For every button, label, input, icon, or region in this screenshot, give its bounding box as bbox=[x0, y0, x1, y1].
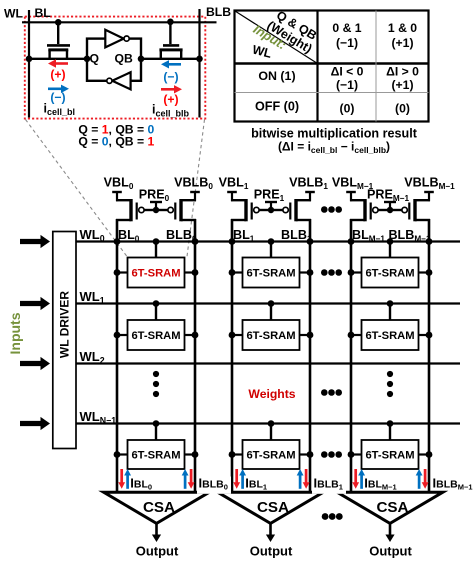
precharge PMOS right 0 (channel) bbox=[179, 199, 182, 221]
inset wire BL bbox=[28, 10, 30, 118]
svg-text:CSA: CSA bbox=[143, 499, 175, 516]
precharge PMOS right 0 (gate bar) bbox=[174, 203, 176, 220]
precharge gate wire right 1 bbox=[271, 209, 283, 211]
vertical ellipsis dots at x=156 bbox=[153, 371, 159, 377]
svg-text:VBLB0: VBLB0 bbox=[174, 176, 213, 192]
svg-text:Output: Output bbox=[369, 544, 412, 559]
junction dot WL_N−1 colM−1 bbox=[387, 420, 394, 427]
6T-SRAM cell row0 col0 (side wires+dots) bbox=[117, 271, 128, 273]
precharge gate wire right M−1 bbox=[390, 209, 402, 211]
svg-text:Output: Output bbox=[136, 544, 179, 559]
precharge PMOS left 0 (wires) bbox=[116, 199, 131, 201]
6T-SRAM cell row1 col0 (WL stub) bbox=[155, 304, 157, 321]
precharge PMOS left 1 (gate bubble) bbox=[254, 207, 259, 212]
precharge gate wire left M−1 bbox=[378, 209, 390, 211]
inset access transistor left (gate stub) bbox=[57, 22, 59, 44]
inset access transistor left (gate bar) bbox=[47, 44, 70, 47]
node PRE_0 dot bbox=[153, 207, 159, 213]
6T-SRAM cell row2 col0 (box) bbox=[128, 440, 185, 469]
6T-SRAM cell row0 col1 (box) bbox=[243, 258, 300, 288]
input arrow 0 bbox=[20, 235, 50, 248]
inset current arrow red left (+) on BL side bbox=[55, 62, 69, 65]
svg-text:0 & 1: 0 & 1 bbox=[332, 21, 361, 35]
6T-SRAM cell row2 colM−1 (box) bbox=[362, 440, 419, 469]
table row divider ON/OFF (thin) bbox=[235, 92, 429, 94]
precharge PMOS left M−1 (gate bubble) bbox=[373, 207, 378, 212]
svg-text:(+): (+) bbox=[163, 93, 178, 107]
svg-text:(+1): (+1) bbox=[391, 36, 413, 50]
VBLB_M−1 supply terminal bbox=[424, 191, 434, 193]
node PRE_1 dot bbox=[268, 207, 274, 213]
current arrow blue up IBL_0 bbox=[126, 475, 129, 489]
PRE_0 terminal stub bbox=[155, 203, 157, 210]
table column divider 1 bbox=[316, 11, 318, 122]
precharge PMOS left 0 (gate bar) bbox=[136, 203, 138, 220]
svg-text:Output: Output bbox=[250, 544, 293, 559]
label IBLB_0 white backing bbox=[197, 477, 231, 494]
inset node Q dot bbox=[84, 56, 91, 63]
label IBLB_1 white backing bbox=[312, 477, 346, 494]
precharge PMOS right M−1 (channel) bbox=[413, 199, 416, 221]
svg-text:Weights: Weights bbox=[248, 387, 295, 401]
svg-text:IBLB1: IBLB1 bbox=[314, 475, 343, 491]
CSA sense amp 0 (triangle) bbox=[104, 492, 210, 523]
svg-text:6T-SRAM: 6T-SRAM bbox=[246, 450, 295, 462]
CSA sense amp 2 (triangle) bbox=[337, 492, 443, 523]
precharge PMOS right M−1 (gate bubble) bbox=[402, 207, 407, 212]
svg-text:(+): (+) bbox=[50, 67, 65, 81]
6T-SRAM cell row1 colM−1 (box) bbox=[362, 320, 419, 350]
svg-text:6T-SRAM: 6T-SRAM bbox=[365, 330, 414, 342]
svg-text:CSA: CSA bbox=[257, 499, 289, 516]
inset access transistor right (channel) bbox=[159, 48, 182, 51]
6T-SRAM cell row2 col1 (WL stub) bbox=[270, 424, 272, 441]
inset current arrow red right (+) on BLB side bbox=[161, 88, 176, 91]
inset access transistor right (gate bar) bbox=[163, 44, 179, 47]
6T-SRAM cell row2 col0 (side wires+dots) bbox=[117, 453, 128, 455]
svg-text:VBLB1: VBLB1 bbox=[289, 176, 328, 192]
current arrow red down IBLB_M−1 bbox=[424, 469, 427, 483]
wire BLB_1 (vertical) bbox=[309, 219, 312, 492]
svg-text:(0): (0) bbox=[395, 101, 410, 115]
wire BLB_M−1 (vertical) bbox=[428, 219, 431, 492]
precharge PMOS left M−1 (gate bar) bbox=[370, 203, 372, 220]
6T-SRAM cell row1 col1 (box) bbox=[243, 320, 300, 350]
junction dot WL_1 col0 bbox=[153, 300, 160, 307]
6T-SRAM cell row2 col1 (side wires+dots) bbox=[232, 453, 243, 455]
inset junction dot BLB bbox=[196, 56, 203, 63]
inset access transistor left (legs) bbox=[48, 50, 50, 59]
svg-text:(0): (0) bbox=[340, 101, 355, 115]
6T-SRAM cell row1 colM−1 (WL stub) bbox=[389, 304, 391, 321]
svg-text:BL: BL bbox=[35, 6, 52, 20]
output arrow 0 bbox=[155, 523, 158, 536]
magnifier dashed line right bbox=[187, 120, 205, 257]
wire WL_2 bbox=[76, 362, 460, 364]
horizontal ellipsis dots SRAM row 1 bbox=[321, 269, 328, 276]
precharge PMOS left 1 (wires) bbox=[231, 199, 246, 201]
wire WL_1 bbox=[76, 302, 460, 304]
horizontal ellipsis dots CSA row bbox=[322, 513, 329, 520]
inset access transistor right (legs) bbox=[160, 50, 162, 59]
svg-text:IBLB0: IBLB0 bbox=[199, 475, 228, 491]
inset inverter bottom bubble bbox=[107, 78, 112, 83]
svg-text:6T-SRAM: 6T-SRAM bbox=[365, 450, 414, 462]
junction dot WL_N−1 col1 bbox=[268, 420, 275, 427]
precharge PMOS left 0 (gate bubble) bbox=[139, 207, 144, 212]
6T-SRAM cell row0 col1 (side wires+dots) bbox=[232, 271, 243, 273]
inset node QB dot bbox=[138, 56, 145, 63]
6T-SRAM cell row1 col0 (side wires+dots) bbox=[117, 334, 128, 336]
svg-text:WL DRIVER: WL DRIVER bbox=[58, 291, 72, 358]
PRE_M−1 terminal stub bbox=[389, 203, 391, 210]
precharge PMOS right M−1 (gate bar) bbox=[408, 203, 410, 220]
inset current arrow blue left (-) on BLB side bbox=[168, 63, 182, 66]
svg-text:6T-SRAM: 6T-SRAM bbox=[246, 268, 295, 280]
current arrow red down IBL_M−1 bbox=[354, 469, 357, 483]
6T-SRAM cell row2 colM−1 (side wires+dots) bbox=[351, 453, 362, 455]
precharge PMOS left 1 (gate bar) bbox=[251, 203, 253, 220]
current arrow red down IBL_0 bbox=[120, 469, 123, 483]
precharge gate wire right 0 bbox=[156, 209, 168, 211]
table header diagonal bbox=[235, 11, 318, 64]
inset wire QB to BLB bbox=[141, 58, 200, 60]
svg-text:1 & 0: 1 & 0 bbox=[388, 21, 417, 35]
precharge PMOS right 1 (wires) bbox=[296, 199, 311, 201]
table header bottom line bbox=[235, 62, 429, 64]
junction dot WL_0 colM−1 bbox=[387, 238, 394, 245]
wire BL_1 (vertical) bbox=[231, 219, 234, 492]
node PRE_M−1 dot bbox=[387, 207, 393, 213]
6T-SRAM cell row1 colM−1 (side wires+dots) bbox=[351, 334, 362, 336]
PRE_1 terminal stub bbox=[270, 203, 272, 210]
inset current arrow blue right (-) on BL side bbox=[48, 88, 63, 91]
svg-text:Inputs: Inputs bbox=[7, 312, 23, 354]
svg-text:6T-SRAM: 6T-SRAM bbox=[365, 268, 414, 280]
horizontal ellipsis dots weights row bbox=[321, 389, 328, 396]
precharge PMOS right 1 (gate bar) bbox=[289, 203, 291, 220]
svg-text:6T-SRAM: 6T-SRAM bbox=[246, 330, 295, 342]
inset wire WL bbox=[22, 21, 217, 23]
6T-SRAM cell row2 col0 (WL stub) bbox=[155, 424, 157, 441]
wire BL_0 (vertical) bbox=[116, 219, 119, 492]
precharge gate wire left 0 bbox=[144, 209, 156, 211]
wire WL_N−1 bbox=[76, 422, 460, 424]
current arrow blue up IBLB_0 bbox=[184, 475, 187, 489]
precharge PMOS right 0 (wires) bbox=[181, 199, 196, 201]
svg-text:CSA: CSA bbox=[376, 499, 408, 516]
6T-SRAM cell row1 col0 (box) bbox=[128, 320, 185, 350]
precharge PMOS right 1 (gate bubble) bbox=[283, 207, 288, 212]
6T-SRAM cell row1 col1 (side wires+dots) bbox=[232, 334, 243, 336]
junction dot WL_N−1 col0 bbox=[153, 420, 160, 427]
6T-SRAM cell row0 colM−1 (box) bbox=[362, 258, 419, 288]
svg-text:6T-SRAM: 6T-SRAM bbox=[131, 268, 180, 280]
svg-text:(−): (−) bbox=[163, 70, 178, 84]
magnifier dashed line left bbox=[26, 120, 128, 257]
inset cross-coupled latch loop bbox=[87, 39, 141, 81]
label IBLB_M−1 white backing bbox=[431, 477, 474, 490]
junction dot WL_1 colM−1 bbox=[387, 300, 394, 307]
wire WL_0 bbox=[76, 240, 460, 242]
svg-text:QB: QB bbox=[115, 52, 133, 66]
junction dot WL_0 col0 bbox=[153, 238, 160, 245]
6T-SRAM cell row0 col0 (WL stub) bbox=[155, 242, 157, 258]
current arrow red down IBL_1 bbox=[235, 469, 238, 483]
current arrow blue up IBLB_1 bbox=[299, 475, 302, 489]
precharge PMOS left 0 (channel) bbox=[129, 199, 132, 221]
6T-SRAM cell row2 col1 (box) bbox=[243, 440, 300, 469]
vertical ellipsis dots at x=390 bbox=[387, 371, 393, 377]
6T-SRAM cell row1 col1 (WL stub) bbox=[270, 304, 272, 321]
6T-SRAM cell row0 colM−1 (side wires+dots) bbox=[351, 271, 362, 273]
precharge gate wire left 1 bbox=[259, 209, 271, 211]
svg-text:Q: Q bbox=[90, 52, 99, 66]
precharge PMOS left 1 (channel) bbox=[244, 199, 247, 221]
svg-text:(−1): (−1) bbox=[336, 78, 358, 92]
junction dot WL_1 col1 bbox=[268, 300, 275, 307]
svg-text:(+1): (+1) bbox=[391, 78, 413, 92]
svg-text:(−): (−) bbox=[50, 91, 65, 105]
inset junction dot WL-gate left bbox=[55, 19, 62, 26]
junction dot WL_0 col1 bbox=[268, 238, 275, 245]
output arrow 1 bbox=[269, 523, 272, 536]
inset inverter top (points right) bbox=[105, 30, 123, 48]
wire BLB_0 (vertical) bbox=[194, 219, 197, 492]
svg-text:ΔI < 0: ΔI < 0 bbox=[331, 65, 364, 79]
svg-text:6T-SRAM: 6T-SRAM bbox=[131, 330, 180, 342]
input arrow 3 bbox=[20, 417, 50, 430]
inset wire BL to Q node bbox=[29, 58, 87, 60]
VBL_1 supply terminal bbox=[227, 191, 237, 193]
current arrow blue up IBLB_M−1 bbox=[418, 475, 421, 489]
precharge PMOS left M−1 (wires) bbox=[350, 199, 365, 201]
current arrow red down IBLB_1 bbox=[305, 469, 308, 483]
6T-SRAM cell row0 col0 (box) bbox=[128, 258, 185, 288]
inset inverter bottom (points left) bbox=[112, 72, 130, 89]
input arrow 1 bbox=[20, 297, 50, 310]
svg-text:ON (1): ON (1) bbox=[258, 69, 295, 83]
inset: red dashed magnifier box bbox=[25, 17, 206, 119]
wire BL_M−1 (vertical) bbox=[350, 219, 353, 492]
precharge PMOS left M−1 (channel) bbox=[363, 199, 366, 221]
svg-text:Q = 0, QB = 1: Q = 0, QB = 1 bbox=[78, 135, 154, 149]
svg-text:BLB: BLB bbox=[206, 5, 231, 19]
6T-SRAM cell row0 colM−1 (WL stub) bbox=[389, 242, 391, 258]
CSA sense amp 1 (triangle) bbox=[218, 492, 324, 523]
table column divider 2 (thin) bbox=[375, 11, 377, 122]
input arrow 2 bbox=[20, 357, 50, 370]
VBLB_1 supply terminal bbox=[305, 191, 315, 193]
table outer border bbox=[235, 11, 429, 122]
inset junction dot WL-gate right bbox=[167, 19, 174, 26]
precharge PMOS right 0 (gate bubble) bbox=[168, 207, 173, 212]
svg-text:WL: WL bbox=[4, 7, 24, 21]
6T-SRAM cell row2 colM−1 (WL stub) bbox=[389, 424, 391, 441]
svg-text:6T-SRAM: 6T-SRAM bbox=[131, 450, 180, 462]
VBL_0 supply terminal bbox=[112, 191, 122, 193]
VBL_M−1 supply terminal bbox=[346, 191, 356, 193]
svg-text:(−1): (−1) bbox=[336, 36, 358, 50]
output arrow 2 bbox=[389, 523, 392, 536]
junction dots on WL_0 at BL/BLB crossings bbox=[114, 238, 121, 245]
current arrow blue up IBL_1 bbox=[241, 475, 244, 489]
horizontal ellipsis dots SRAM row 4 bbox=[321, 451, 328, 458]
svg-text:OFF (0): OFF (0) bbox=[255, 99, 299, 113]
inset access transistor right (gate stub) bbox=[169, 22, 171, 44]
precharge PMOS right 1 (channel) bbox=[294, 199, 297, 221]
current arrow red down IBLB_0 bbox=[190, 469, 193, 483]
WL driver box bbox=[53, 232, 76, 449]
inset inverter top bubble bbox=[124, 36, 129, 41]
VBLB_0 supply terminal bbox=[190, 191, 200, 193]
current arrow blue up IBL_M−1 bbox=[360, 475, 363, 489]
horizontal ellipsis dots PRE row bbox=[321, 206, 328, 213]
svg-text:bitwise multiplication result: bitwise multiplication result bbox=[251, 126, 418, 140]
inset junction dot BL bbox=[26, 56, 33, 63]
6T-SRAM cell row0 col1 (WL stub) bbox=[270, 242, 272, 258]
svg-text:ΔI > 0: ΔI > 0 bbox=[386, 65, 419, 79]
inset wire BLB bbox=[198, 9, 200, 118]
inset access transistor left (channel) bbox=[48, 48, 68, 51]
precharge PMOS right M−1 (wires) bbox=[415, 199, 430, 201]
